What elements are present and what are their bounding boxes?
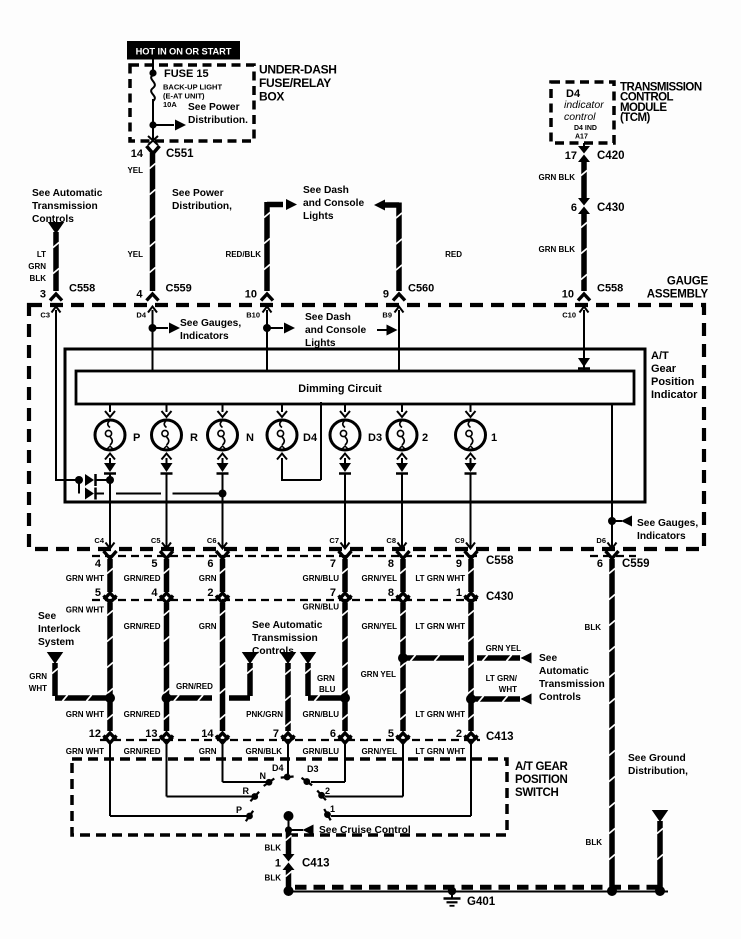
diode below bulb 2: [401, 458, 403, 463]
power source header HOT IN ON OR START: [127, 41, 240, 60]
svg-text:12: 12: [89, 728, 101, 740]
svg-text:1: 1: [491, 432, 497, 444]
svg-text:2: 2: [325, 786, 330, 796]
ground bus line: [289, 891, 669, 893]
svg-text:See Automatic: See Automatic: [32, 188, 103, 199]
switch contact D3: [303, 778, 310, 785]
indicator bulb D3: [344, 404, 346, 412]
svg-text:C560: C560: [408, 283, 434, 295]
svg-text:See Dash: See Dash: [303, 185, 349, 196]
svg-text:GRN WHT: GRN WHT: [66, 606, 104, 615]
svg-text:GRN/YEL: GRN/YEL: [361, 574, 397, 583]
diode below bulb D3: [344, 458, 346, 463]
svg-text:POSITION: POSITION: [515, 774, 568, 786]
svg-text:See: See: [38, 611, 56, 622]
svg-text:and Console: and Console: [303, 198, 364, 209]
svg-text:Distribution,: Distribution,: [628, 766, 688, 777]
wire D4 entry to dimming circuit: [152, 310, 154, 372]
dimming circuit output stub to D6: [611, 404, 613, 548]
svg-text:See Gauges,: See Gauges,: [637, 518, 698, 529]
svg-text:GRN/RED: GRN/RED: [124, 622, 161, 631]
svg-text:2: 2: [456, 728, 462, 740]
ground G401: [448, 887, 456, 895]
svg-text:R: R: [190, 432, 198, 444]
node on N wire: [219, 490, 227, 498]
svg-text:GRN WHT: GRN WHT: [66, 747, 104, 756]
connector row C559 dashed line stub: [590, 555, 636, 557]
svg-text:RED: RED: [445, 250, 462, 259]
wire segments diode to N node (crossing P and R): [96, 493, 104, 495]
switch contact 1: [324, 811, 331, 818]
connector row C558/C559/C560 at gauge assembly: [50, 294, 62, 301]
branch down to second diode: [78, 480, 80, 494]
node BLK to ground bus: [284, 886, 294, 896]
D4 bulb return loop into dimming circuit: [281, 458, 283, 480]
indicator bulb 2: [401, 404, 403, 412]
switch contact R: [251, 793, 258, 800]
svg-text:GRN/RED: GRN/RED: [124, 710, 161, 719]
svg-text:2: 2: [207, 587, 213, 599]
svg-text:LT GRN WHT: LT GRN WHT: [415, 574, 465, 583]
svg-text:6: 6: [207, 558, 213, 570]
wire C3 node to diode branch: [55, 310, 57, 480]
svg-text:5: 5: [95, 587, 101, 599]
svg-text:GRN: GRN: [29, 672, 47, 681]
svg-text:7: 7: [330, 587, 336, 599]
svg-text:C430: C430: [486, 591, 514, 603]
svg-text:7: 7: [330, 558, 336, 570]
indicator bulb R: [166, 404, 168, 412]
svg-text:GRN/RED: GRN/RED: [176, 682, 213, 691]
svg-text:Lights: Lights: [303, 211, 334, 222]
svg-text:D4: D4: [136, 311, 146, 320]
svg-text:See Ground: See Ground: [628, 753, 686, 764]
svg-text:See: See: [539, 653, 557, 664]
node on GRN/YEL wire: [398, 653, 408, 663]
gauge assembly box (dashed): [29, 305, 704, 549]
svg-text:4: 4: [95, 558, 102, 570]
exit arrows at gauge box bottom: [106, 543, 115, 549]
svg-text:BOX: BOX: [259, 90, 284, 104]
svg-text:FUSE/RELAY: FUSE/RELAY: [259, 76, 331, 90]
node on GRN/RED wire: [162, 693, 172, 703]
svg-text:Transmission: Transmission: [252, 633, 318, 644]
svg-text:BACK-UP LIGHT: BACK-UP LIGHT: [163, 83, 222, 92]
svg-text:BLK: BLK: [585, 623, 602, 632]
svg-text:B10: B10: [246, 311, 260, 320]
switch wire to P contact: [109, 744, 111, 816]
connector C430 pin 6 (TCM branch): [578, 198, 590, 206]
diode on C10 wire: [578, 358, 590, 367]
wires C430 to C413 (long run): [107, 603, 113, 731]
svg-text:C3: C3: [40, 311, 50, 320]
svg-text:C413: C413: [302, 858, 330, 870]
svg-text:GRN WHT: GRN WHT: [66, 574, 104, 583]
svg-text:BLK: BLK: [265, 844, 282, 853]
svg-text:2: 2: [422, 432, 428, 444]
svg-text:10: 10: [245, 289, 257, 301]
node on GRN/BLU wire: [340, 693, 350, 703]
diode to N bulb circuit: [85, 488, 94, 500]
svg-text:PNK/GRN: PNK/GRN: [246, 710, 283, 719]
diode below bulb R: [166, 458, 168, 463]
svg-text:LT GRN WHT: LT GRN WHT: [415, 622, 465, 631]
node cruise control branch: [285, 826, 292, 833]
svg-text:D4: D4: [303, 432, 318, 444]
svg-text:See Power: See Power: [188, 102, 240, 113]
svg-text:GRN/BLK: GRN/BLK: [246, 747, 283, 756]
svg-text:D6: D6: [596, 536, 606, 545]
svg-text:N: N: [246, 432, 254, 444]
svg-text:C413: C413: [486, 731, 514, 743]
branch arrow See Gauges Indicators (top): [153, 327, 169, 329]
A/T gear position switch box (dashed): [72, 759, 507, 835]
svg-text:C5: C5: [151, 536, 161, 545]
svg-text:Distribution,: Distribution,: [172, 201, 232, 212]
diode below bulb 1: [470, 458, 472, 463]
svg-text:HOT IN ON OR START: HOT IN ON OR START: [136, 47, 232, 57]
wire PNK/GRN down to C413 pin 7: [285, 663, 291, 731]
switch wire to R contact: [166, 744, 168, 797]
wire LT GRN/WHT branch right: [471, 696, 520, 702]
wire YEL C551 to C559 pin 4: [150, 153, 156, 291]
diode to P bulb circuit: [85, 474, 94, 486]
svg-text:GRN BLK: GRN BLK: [539, 245, 576, 254]
wire GRN BLK C420 to C430: [581, 160, 587, 200]
svg-text:4: 4: [151, 587, 158, 599]
svg-text:BLU: BLU: [319, 685, 336, 694]
svg-text:9: 9: [383, 289, 389, 301]
connector row C430 dashed line: [92, 599, 480, 601]
wire B9 entry to dimming circuit: [398, 310, 400, 372]
svg-text:P: P: [133, 432, 140, 444]
node interlock join on GRN WHT wire: [105, 693, 115, 703]
svg-text:LT GRN WHT: LT GRN WHT: [415, 710, 465, 719]
svg-text:Controls: Controls: [539, 692, 581, 703]
wire ground distribution branch: [657, 821, 663, 889]
wire BLK wiper to C413 pin 1: [286, 831, 292, 858]
dimming circuit box: [76, 371, 634, 404]
svg-text:See Power: See Power: [172, 188, 224, 199]
wire from header into fuse box: [152, 59, 154, 76]
svg-text:and Console: and Console: [305, 325, 366, 336]
wires C558 to C430 (6 gear position wires): [107, 559, 113, 592]
svg-text:14: 14: [131, 148, 144, 160]
diode below bulb N: [222, 458, 224, 463]
node at fuse top: [149, 69, 156, 76]
svg-text:Lights: Lights: [305, 338, 336, 349]
fuse F15 element symbol: [151, 75, 155, 101]
svg-text:C551: C551: [166, 148, 194, 160]
indicator bulb P: [109, 404, 111, 412]
wire GRN/RED branch (crossing GRN wire): [247, 663, 253, 696]
svg-text:B9: B9: [382, 311, 392, 320]
wire below fuse: [152, 99, 154, 141]
connector row C558 pins 4-9: [104, 551, 117, 559]
svg-text:UNDER-DASH: UNDER-DASH: [259, 63, 337, 77]
svg-text:control: control: [564, 111, 596, 123]
switch wire to D4 contact: [287, 744, 289, 774]
wire LT GRN/BLK to C558 pin 3: [53, 232, 59, 291]
connector row C558 dashed line: [92, 555, 480, 557]
arrow 1 from See ATC to GRN/RED branch: [242, 652, 259, 664]
svg-text:Gear: Gear: [651, 363, 677, 375]
switch wire to 2 contact: [402, 744, 404, 797]
svg-text:GRN: GRN: [317, 674, 335, 683]
wire GRN/WHT interlock branch to P wire: [52, 663, 58, 696]
arrow See Cruise Control: [289, 829, 304, 831]
wire GRN BLK C430 to C558 pin 10: [581, 212, 587, 291]
svg-text:C558: C558: [597, 283, 623, 295]
node at fuse bottom branch: [149, 121, 156, 128]
connector row C413 dashed line: [100, 739, 480, 741]
svg-text:GAUGE: GAUGE: [667, 276, 709, 288]
svg-text:17: 17: [565, 150, 577, 162]
svg-text:C7: C7: [329, 536, 339, 545]
connector row C430 pins: [104, 593, 116, 600]
svg-text:See Dash: See Dash: [305, 312, 351, 323]
svg-text:ASSEMBLY: ASSEMBLY: [647, 289, 709, 301]
svg-text:GRN WHT: GRN WHT: [66, 710, 104, 719]
svg-text:Position: Position: [651, 376, 695, 388]
svg-text:WHT: WHT: [499, 685, 517, 694]
svg-text:A/T: A/T: [651, 350, 669, 362]
indicator bulb N: [222, 404, 224, 412]
svg-text:C4: C4: [94, 536, 104, 545]
svg-text:GRN/RED: GRN/RED: [124, 747, 161, 756]
svg-text:YEL: YEL: [127, 250, 143, 259]
svg-text:D3: D3: [307, 764, 319, 774]
arrow GRN YEL to See ATC right: [521, 653, 532, 664]
svg-text:FUSE 15: FUSE 15: [164, 68, 209, 80]
svg-text:GRN: GRN: [28, 262, 46, 271]
under-dash fuse/relay box (dashed): [130, 65, 254, 141]
svg-text:Distribution.: Distribution.: [188, 115, 248, 126]
switch contact D4: [284, 774, 291, 781]
node on D6 stub: [608, 517, 616, 525]
switch contact N: [266, 779, 273, 786]
svg-text:8: 8: [388, 587, 394, 599]
svg-text:LT GRN WHT: LT GRN WHT: [415, 747, 465, 756]
svg-text:10: 10: [562, 289, 574, 301]
svg-text:See Cruise Control: See Cruise Control: [319, 825, 411, 836]
svg-text:GRN/BLU: GRN/BLU: [303, 710, 340, 719]
svg-text:R: R: [243, 786, 250, 796]
switch wiper common node: [284, 811, 294, 821]
A/T gear position indicator box: [65, 349, 645, 502]
svg-text:6: 6: [571, 202, 577, 214]
arrow 2 from See ATC to PNK/GRN wire: [280, 652, 297, 664]
svg-text:A17: A17: [575, 134, 588, 141]
svg-text:C558: C558: [486, 555, 514, 567]
svg-text:7: 7: [273, 728, 279, 740]
wire B10 entry to dimming circuit: [266, 310, 268, 372]
switch wire to 1 contact: [470, 744, 472, 816]
switch wire to N contact: [222, 744, 224, 782]
svg-text:3: 3: [40, 289, 46, 301]
node on D4 entry wire: [149, 324, 157, 332]
svg-text:GRN: GRN: [199, 574, 217, 583]
connector C551 pin 14: [147, 146, 160, 154]
border crossing X at fuse box exit: [148, 136, 158, 145]
svg-text:See Gauges,: See Gauges,: [180, 318, 241, 329]
svg-text:Transmission: Transmission: [539, 679, 605, 690]
svg-text:GRN/YEL: GRN/YEL: [361, 622, 397, 631]
wire GRN BLU branch to GRN/BLU wire: [305, 663, 311, 696]
wire C10 entry to dimming circuit: [583, 310, 585, 372]
svg-text:6: 6: [597, 558, 603, 570]
svg-text:Indicators: Indicators: [637, 531, 686, 542]
svg-text:BLK: BLK: [586, 838, 603, 847]
node on P wire: [106, 476, 114, 484]
svg-text:1: 1: [456, 587, 462, 599]
svg-text:LT GRN/: LT GRN/: [486, 674, 518, 683]
svg-text:C10: C10: [562, 311, 576, 320]
arrow 3 from See ATC to GRN/BLU branch: [300, 652, 317, 664]
svg-text:14: 14: [201, 728, 214, 740]
svg-text:SWITCH: SWITCH: [515, 787, 559, 799]
svg-text:Automatic: Automatic: [539, 666, 589, 677]
svg-text:D3: D3: [368, 432, 382, 444]
svg-text:(TCM): (TCM): [620, 112, 651, 124]
svg-text:Transmission: Transmission: [32, 201, 98, 212]
wire BLK down to ground bus: [286, 866, 292, 889]
svg-text:C558: C558: [69, 283, 95, 295]
indicator bulb D4: [281, 404, 283, 412]
svg-text:GRN/YEL: GRN/YEL: [361, 747, 397, 756]
wire BLK C559 to ground bus: [609, 559, 615, 889]
node on B10 entry wire: [263, 324, 271, 332]
svg-text:D4: D4: [272, 763, 284, 773]
svg-text:Interlock: Interlock: [38, 624, 81, 635]
connector C420 pin 17: [578, 146, 590, 154]
svg-text:5: 5: [151, 558, 157, 570]
svg-text:Dimming Circuit: Dimming Circuit: [298, 383, 382, 395]
arrow from See Ground Distribution: [652, 810, 669, 822]
diode below bulb P: [109, 458, 111, 463]
arrow from See Interlock System: [47, 652, 64, 664]
svg-text:GRN: GRN: [199, 747, 217, 756]
wire from TCM box to C420: [583, 143, 585, 150]
svg-text:13: 13: [145, 728, 157, 740]
svg-text:4: 4: [136, 289, 143, 301]
svg-text:WHT: WHT: [29, 684, 47, 693]
svg-text:GRN/BLU: GRN/BLU: [303, 574, 340, 583]
svg-text:GRN/BLU: GRN/BLU: [303, 603, 340, 612]
svg-text:GRN YEL: GRN YEL: [486, 644, 522, 653]
svg-text:C559: C559: [166, 283, 192, 295]
node ground branch at ground bus: [655, 886, 665, 896]
switch wire to D3 contact: [344, 744, 346, 782]
arrow LT GRN WHT to See ATC right: [521, 694, 532, 705]
connector C559 pin 6: [606, 551, 619, 559]
svg-text:RED/BLK: RED/BLK: [225, 250, 261, 259]
svg-text:GRN BLK: GRN BLK: [539, 173, 576, 182]
arrow from See Automatic Transmission Controls: [48, 222, 65, 234]
svg-text:10A: 10A: [163, 100, 177, 109]
svg-text:N: N: [260, 771, 267, 781]
svg-text:GRN/BLU: GRN/BLU: [303, 747, 340, 756]
svg-text:P: P: [236, 805, 242, 815]
indicator bulb 1: [470, 404, 472, 412]
svg-text:C6: C6: [207, 536, 217, 545]
wire diode to P node: [96, 479, 110, 481]
branch arrow See Gauges Indicators (right): [612, 520, 622, 522]
svg-text:Indicator: Indicator: [651, 389, 698, 401]
svg-text:G401: G401: [467, 896, 496, 908]
svg-text:1: 1: [330, 804, 335, 814]
svg-text:indicator: indicator: [564, 99, 604, 111]
svg-text:GRN YEL: GRN YEL: [361, 670, 397, 679]
svg-text:LT: LT: [37, 250, 46, 259]
wire RED with arrow to See Dash and Console Lights: [374, 200, 385, 211]
node BLK C559 at ground bus: [607, 886, 617, 896]
svg-text:8: 8: [388, 558, 394, 570]
svg-text:GRN/RED: GRN/RED: [124, 574, 161, 583]
switch contact 2: [318, 792, 325, 799]
connector C413 pin 1: [283, 854, 295, 862]
entry arrows into gauge box: [52, 307, 61, 313]
wire RED/BLK with arrow to See Dash and Console Lights: [267, 202, 283, 208]
bulb output wires down to C558 connectors: [109, 475, 111, 549]
wire GRN YEL branch right (crossing LT GRN WHT): [403, 655, 464, 661]
svg-text:C430: C430: [597, 202, 625, 214]
svg-text:System: System: [38, 637, 74, 648]
ground bus BLK dashed wire: [295, 885, 662, 890]
svg-text:5: 5: [388, 728, 394, 740]
svg-text:C9: C9: [455, 536, 465, 545]
incoming arrow to B9 wire: [377, 329, 388, 331]
svg-text:1: 1: [275, 858, 281, 870]
svg-text:See Automatic: See Automatic: [252, 620, 323, 631]
branch arrow See Dash and Console Lights (inner): [267, 327, 283, 329]
connector row C413 pins: [104, 733, 116, 740]
svg-text:6: 6: [330, 728, 336, 740]
node C3 branch: [75, 476, 83, 484]
svg-text:C8: C8: [386, 536, 396, 545]
branch arrow See Power Distribution (in fuse box): [153, 124, 174, 126]
svg-text:Indicators: Indicators: [180, 331, 229, 342]
svg-text:A/T GEAR: A/T GEAR: [515, 761, 569, 773]
svg-text:BLK: BLK: [265, 874, 282, 883]
svg-text:C559: C559: [622, 558, 650, 570]
switch contact P: [246, 813, 253, 820]
svg-text:BLK: BLK: [30, 274, 47, 283]
svg-text:9: 9: [456, 558, 462, 570]
svg-text:GRN: GRN: [199, 622, 217, 631]
svg-text:YEL: YEL: [127, 166, 143, 175]
svg-text:C420: C420: [597, 150, 625, 162]
svg-text:D4 IND: D4 IND: [574, 125, 597, 132]
node on LT GRN WHT wire: [466, 694, 476, 704]
transmission control module box (dashed): [551, 82, 614, 143]
